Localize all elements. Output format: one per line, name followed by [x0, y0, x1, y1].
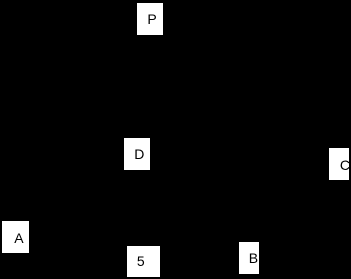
- node B: [239, 242, 259, 274]
- node D: [124, 138, 150, 170]
- node 5: [127, 246, 160, 277]
- node A: [2, 221, 29, 253]
- node P: [137, 3, 163, 35]
- node C: [329, 148, 349, 180]
